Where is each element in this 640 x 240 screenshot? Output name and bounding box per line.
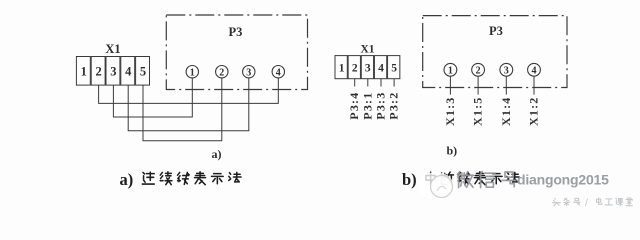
svg-text:5: 5 <box>391 63 397 75</box>
svg-text:X1:3: X1:3 <box>443 97 457 126</box>
svg-text:P3:3: P3:3 <box>374 92 388 120</box>
svg-text:2: 2 <box>219 67 224 78</box>
svg-text:1: 1 <box>339 63 345 75</box>
svg-text:P3:2: P3:2 <box>387 92 401 120</box>
svg-text:2: 2 <box>476 66 481 77</box>
svg-text:P3:4: P3:4 <box>347 92 361 120</box>
svg-text:X1: X1 <box>105 42 120 56</box>
svg-text:P3: P3 <box>489 24 503 38</box>
svg-text:3: 3 <box>246 67 251 78</box>
svg-text:P3:1: P3:1 <box>360 92 374 120</box>
svg-text:4: 4 <box>125 65 132 79</box>
svg-text:X1:4: X1:4 <box>499 97 513 126</box>
svg-text:P3: P3 <box>229 25 243 39</box>
svg-text:4: 4 <box>276 67 281 78</box>
svg-text:2: 2 <box>352 63 358 75</box>
svg-text:X1:5: X1:5 <box>471 97 485 126</box>
svg-text:5: 5 <box>140 65 146 79</box>
svg-text:1: 1 <box>81 65 87 79</box>
svg-text:a): a) <box>120 170 134 189</box>
svg-text:3: 3 <box>365 63 371 75</box>
svg-text:diangong2015: diangong2015 <box>517 172 609 188</box>
svg-text:1: 1 <box>448 66 453 77</box>
svg-text:4: 4 <box>378 63 384 75</box>
svg-text:a): a) <box>212 147 222 161</box>
svg-text:b): b) <box>447 144 458 158</box>
svg-text:b): b) <box>402 170 417 189</box>
svg-text:/: / <box>585 197 588 209</box>
svg-text:3: 3 <box>110 65 116 79</box>
svg-text:3: 3 <box>504 66 509 77</box>
svg-text:X1:2: X1:2 <box>527 97 541 126</box>
svg-text:4: 4 <box>532 66 537 77</box>
svg-text:2: 2 <box>95 65 101 79</box>
svg-text:1: 1 <box>190 67 195 78</box>
svg-text:X1: X1 <box>360 44 374 56</box>
